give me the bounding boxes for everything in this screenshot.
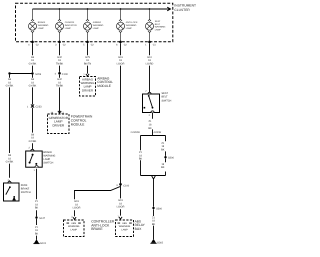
svg-text:C100: C100 [62,73,69,76]
svg-text:MODULE: MODULE [71,122,85,126]
svg-text:WARNING: WARNING [155,26,166,29]
svg-text:LAMP: LAMP [65,27,71,30]
svg-text:4-DOOR: 4-DOOR [152,131,162,134]
svg-text:GY/BK: GY/BK [6,161,14,164]
svg-text:TN/BK: TN/BK [56,85,64,88]
svg-text:CHARGE: CHARGE [65,21,75,24]
svg-text:S147: S147 [39,217,45,220]
svg-text:2-DOOR: 2-DOOR [130,131,140,134]
svg-text:LG/OR: LG/OR [73,207,81,210]
svg-text:LAMP: LAMP [70,228,77,231]
svg-text:LAMP: LAMP [38,27,44,30]
svg-text:LAMP: LAMP [93,27,99,30]
svg-text:GY/BK: GY/BK [29,140,37,143]
svg-text:BK: BK [161,148,165,151]
svg-text:LAMP: LAMP [126,27,132,30]
svg-text:INDICATOR: INDICATOR [65,24,77,27]
svg-text:AIRBAG: AIRBAG [93,21,102,24]
svg-text:WARNING: WARNING [126,24,137,27]
svg-text:S306: S306 [168,157,174,160]
svg-text:BK: BK [35,207,39,210]
svg-text:GY/BK: GY/BK [29,85,37,88]
svg-text:BK: BK [152,223,156,226]
svg-text:BK: BK [148,127,152,130]
svg-text:C233: C233 [36,106,43,109]
svg-text:DRIVER: DRIVER [52,123,64,127]
svg-text:WARNING: WARNING [38,24,49,27]
svg-text:LG/OR: LG/OR [117,63,125,66]
svg-text:LG/RD: LG/RD [146,63,154,66]
svg-text:SWITCH: SWITCH [43,162,53,165]
svg-text:BK: BK [139,158,143,161]
svg-text:BRAKE: BRAKE [91,227,103,231]
svg-text:WARNING: WARNING [93,24,104,27]
svg-text:LG/OR: LG/OR [117,206,125,209]
svg-text:LAMP: LAMP [155,29,161,32]
svg-text:GY/BK: GY/BK [29,63,37,66]
svg-text:SWITCH: SWITCH [21,191,31,194]
svg-text:BOX: BOX [135,227,143,231]
svg-text:GY/BK: GY/BK [6,85,14,88]
svg-text:BK/TN: BK/TN [84,63,92,66]
svg-text:BK: BK [161,166,165,169]
svg-text:G101: G101 [40,242,47,245]
svg-text:S300: S300 [156,207,162,210]
svg-text:BK: BK [35,232,39,235]
svg-text:SWITCH: SWITCH [162,99,172,102]
svg-text:SEAT: SEAT [155,20,161,23]
svg-text:SEAT: SEAT [162,92,169,95]
svg-text:C100: C100 [123,184,130,187]
svg-text:BELT: BELT [155,23,161,26]
svg-text:G302: G302 [157,242,164,245]
svg-text:INSTRUMENT: INSTRUMENT [174,3,196,7]
svg-text:BRAKE: BRAKE [38,21,46,24]
svg-text:TN/BK: TN/BK [56,63,64,66]
svg-text:ANTI-LOCK: ANTI-LOCK [126,21,138,24]
svg-text:LAMP: LAMP [121,228,128,231]
svg-text:CLUSTER: CLUSTER [174,8,190,12]
svg-text:S206: S206 [35,73,41,76]
svg-text:DRIVER: DRIVER [82,88,93,92]
svg-text:MODULE: MODULE [97,84,111,88]
svg-text:BELT: BELT [162,96,169,99]
